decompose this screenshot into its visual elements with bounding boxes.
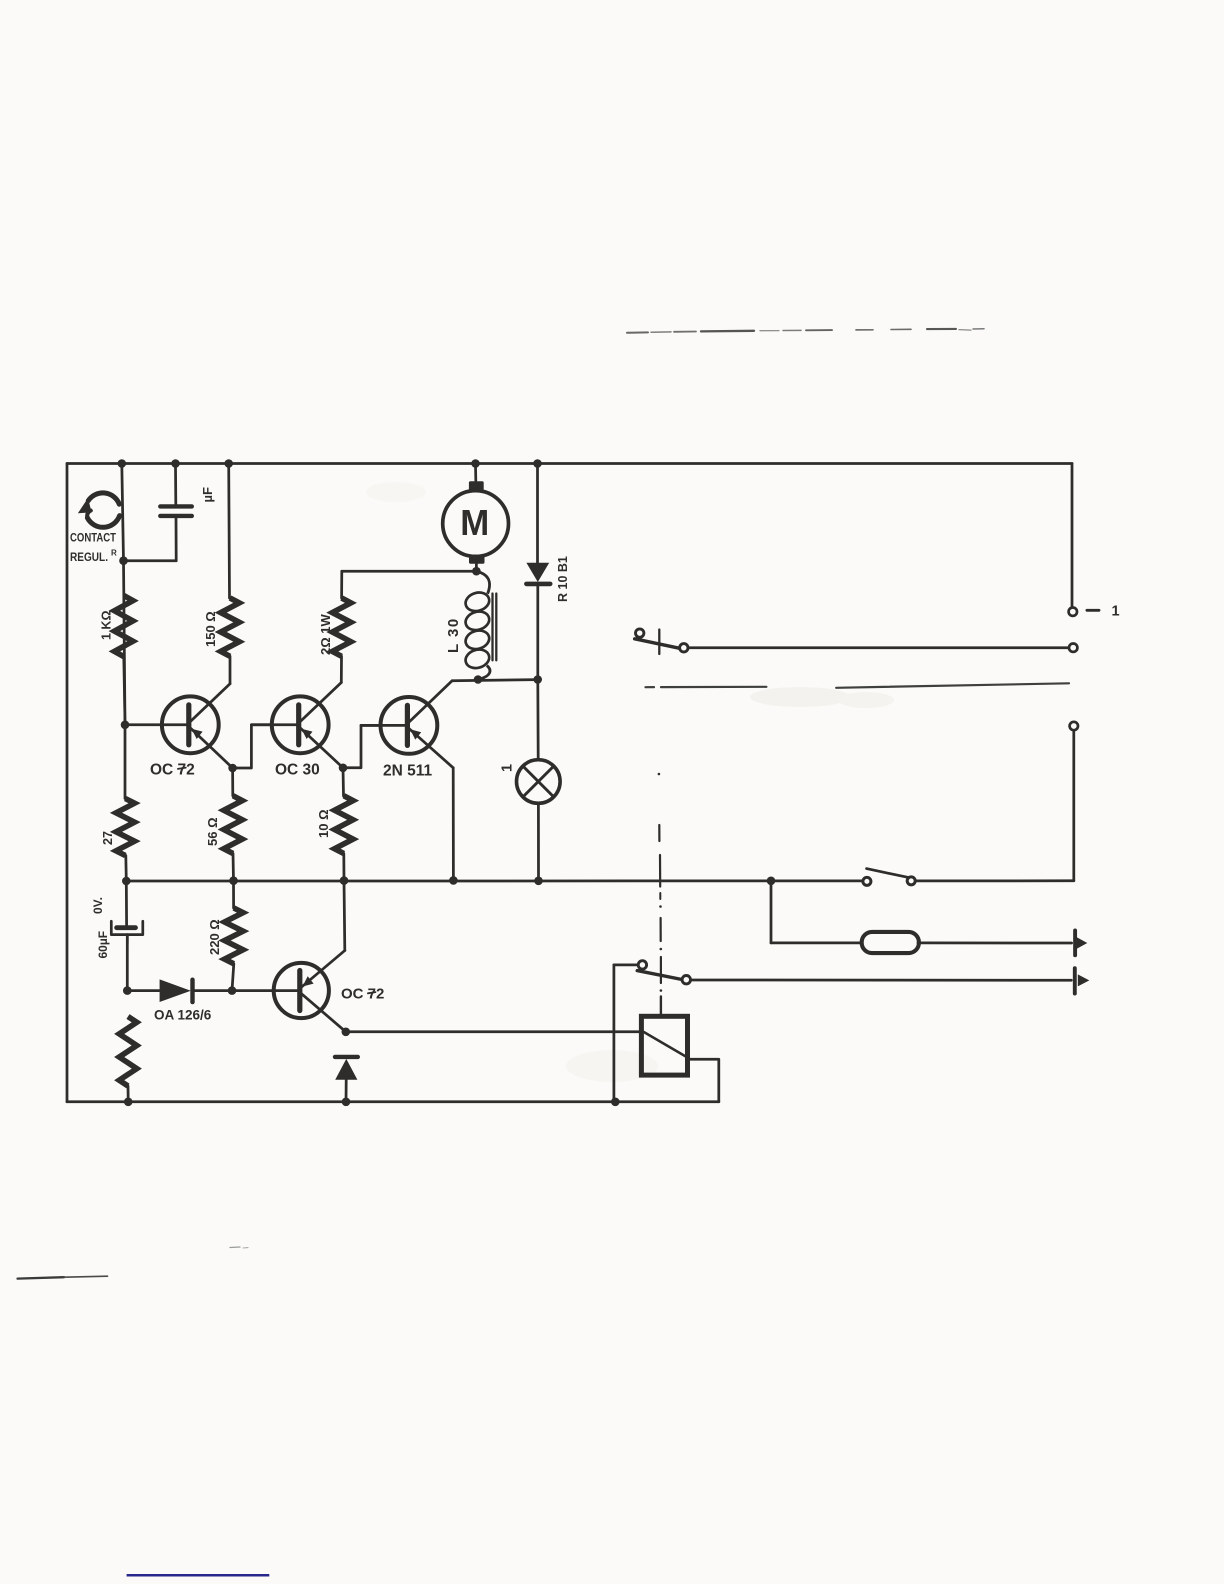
svg-text:OC 30: OC 30	[275, 762, 320, 779]
svg-text:R 10 B1: R 10 B1	[556, 556, 570, 602]
svg-text:60µF: 60µF	[96, 931, 110, 959]
svg-text:µF: µF	[200, 487, 215, 502]
svg-text:OC 72: OC 72	[341, 986, 384, 1003]
svg-text:OA 126/6: OA 126/6	[154, 1008, 212, 1023]
svg-text:2N 511: 2N 511	[383, 763, 433, 780]
svg-text:R: R	[111, 549, 117, 558]
svg-text:REGUL.: REGUL.	[70, 552, 108, 564]
svg-text:10 Ω: 10 Ω	[316, 810, 331, 839]
svg-text:1: 1	[1112, 603, 1120, 619]
svg-text:L 30: L 30	[445, 617, 462, 653]
svg-text:2Ω 1W: 2Ω 1W	[318, 614, 333, 655]
svg-text:1 KΩ: 1 KΩ	[100, 611, 114, 640]
svg-text:220 Ω: 220 Ω	[207, 919, 222, 955]
svg-text:OC 72: OC 72	[150, 762, 195, 779]
svg-text:56 Ω: 56 Ω	[205, 818, 220, 847]
svg-text:0V.: 0V.	[91, 897, 105, 914]
svg-text:1: 1	[500, 764, 516, 772]
svg-text:150 Ω: 150 Ω	[203, 611, 218, 647]
svg-text:27: 27	[101, 831, 115, 845]
svg-text:CONTACT: CONTACT	[70, 533, 116, 545]
svg-text:M: M	[460, 502, 489, 543]
